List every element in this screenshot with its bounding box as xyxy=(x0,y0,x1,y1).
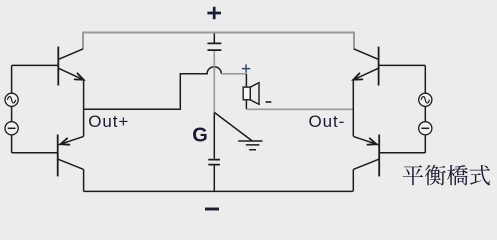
V- rail wire xyxy=(84,190,353,192)
wire between right sources xyxy=(424,106,426,121)
svg-text:Out+: Out+ xyxy=(88,112,129,131)
wire C2 to V- rail xyxy=(213,166,215,192)
V- label xyxy=(205,208,219,211)
caption 平衡橋式 xyxy=(403,165,490,185)
wire C1 to node G (gray, passes under hump) xyxy=(213,51,215,113)
wire V+ rail to C1 xyxy=(213,34,215,43)
wire between left sources xyxy=(11,106,13,121)
wire Q1 base xyxy=(12,64,59,66)
capacitor C2 (bottom) xyxy=(208,160,220,165)
DC source V4 (right, minus) xyxy=(419,122,432,135)
V+ rail wire xyxy=(83,33,354,50)
wire Q2 collector to V- rail xyxy=(83,169,85,191)
speaker LS1 xyxy=(243,83,259,105)
svg-text:Out-: Out- xyxy=(309,112,346,131)
speaker LS1 minus label xyxy=(266,101,272,103)
transistor Q3 (NPN, top-right) xyxy=(353,47,378,86)
ground symbol xyxy=(238,141,262,150)
wire Q3 base xyxy=(379,64,426,66)
wire Out+ node to speaker (with crossover hump) xyxy=(84,67,222,110)
wire Q4 base xyxy=(379,152,425,154)
wire Q2 base xyxy=(12,152,58,154)
capacitor C1 (top) xyxy=(208,43,222,50)
wire right source column top xyxy=(424,65,426,93)
wire speaker bottom xyxy=(245,100,247,110)
wire Q4 collector to V- rail xyxy=(352,169,354,191)
wire speaker + drop xyxy=(245,74,247,87)
svg-text:G: G xyxy=(192,125,208,147)
AC source V1 (left) xyxy=(5,93,18,106)
wire speaker to Out- node (gray) xyxy=(246,108,353,110)
wire node G to ground xyxy=(215,113,253,142)
transistor Q1 (NPN, top-left) xyxy=(58,47,83,86)
AC source V3 (right) xyxy=(419,93,432,106)
wire Q1 emitter to Q2 emitter xyxy=(83,80,85,137)
wire hump to speaker + terminal (gray) xyxy=(221,73,246,75)
wire right source column bottom xyxy=(424,135,426,153)
wire node G to C2 xyxy=(213,113,215,159)
DC source V2 (left, minus) xyxy=(5,122,18,135)
transistor Q2 (PNP, bottom-left) xyxy=(58,135,84,177)
wire Q3 emitter to Q4 emitter xyxy=(352,80,354,137)
wire left source column bottom xyxy=(11,135,13,153)
speaker LS1 plus label xyxy=(242,64,250,72)
V+ label xyxy=(207,7,221,19)
transistor Q4 (PNP, bottom-right) xyxy=(353,135,379,177)
wire left source column top xyxy=(11,65,13,93)
